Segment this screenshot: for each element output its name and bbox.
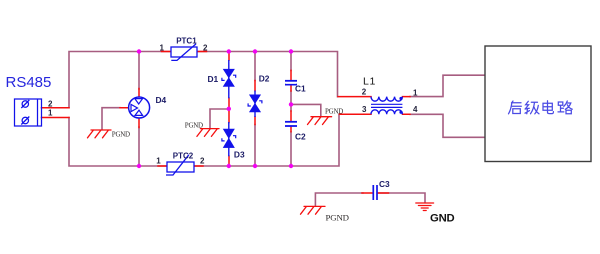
svg-text:D2: D2	[259, 74, 270, 84]
svg-text:D1: D1	[208, 74, 219, 84]
svg-text:1: 1	[156, 156, 161, 165]
svg-text:2: 2	[362, 88, 367, 97]
svg-text:C3: C3	[379, 179, 390, 189]
svg-text:C2: C2	[295, 132, 306, 142]
svg-text:RS485: RS485	[6, 74, 52, 91]
svg-text:1: 1	[160, 43, 165, 52]
svg-text:PGND: PGND	[112, 130, 130, 138]
svg-text:PGND: PGND	[325, 107, 343, 115]
svg-text:D3: D3	[234, 149, 245, 159]
svg-text:2: 2	[48, 99, 53, 108]
svg-text:L1: L1	[363, 76, 376, 88]
svg-text:1: 1	[413, 89, 418, 98]
svg-text:PTC2: PTC2	[173, 152, 194, 161]
svg-text:3: 3	[362, 105, 367, 114]
svg-text:D4: D4	[156, 95, 167, 105]
svg-text:1: 1	[48, 109, 53, 118]
svg-text:PGND: PGND	[185, 122, 203, 130]
svg-text:GND: GND	[430, 213, 455, 225]
svg-text:PGND: PGND	[326, 213, 349, 223]
svg-text:2: 2	[203, 43, 208, 52]
svg-text:PTC1: PTC1	[176, 37, 197, 46]
svg-text:2: 2	[200, 156, 205, 165]
svg-text:4: 4	[413, 105, 418, 114]
svg-text:C1: C1	[295, 83, 306, 93]
